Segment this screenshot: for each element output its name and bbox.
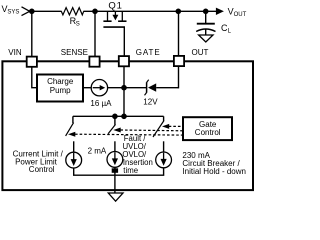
svg-text:Pump: Pump <box>50 86 71 95</box>
svg-text:Control: Control <box>195 128 221 137</box>
capacitor CL <box>196 24 215 35</box>
svg-text:VIN: VIN <box>8 48 22 57</box>
transistor Q1 (N-FET, simplified) <box>103 11 126 56</box>
node dot SENSE junction <box>92 9 98 15</box>
node square gnd junction <box>112 168 118 173</box>
node dot gate/16uA/zener <box>121 85 127 91</box>
svg-text:SENSE: SENSE <box>61 48 88 57</box>
svg-text:time: time <box>123 166 138 175</box>
wire gate net vertical <box>123 66 125 116</box>
label VOUT <box>228 7 247 19</box>
switch S1 (left) <box>66 116 74 152</box>
switch S2 (middle) <box>108 116 115 151</box>
node dot CL junction <box>203 9 209 15</box>
switch S3 (right) <box>153 116 164 152</box>
label Fault / UVLO / OVLO / Insertion time <box>122 134 152 175</box>
label Current Limit / Power Limit Control <box>13 149 64 174</box>
ground at CL (open triangle) <box>199 35 213 42</box>
svg-text:12V: 12V <box>143 97 158 106</box>
svg-text:OUT: OUT <box>234 12 247 18</box>
svg-text:OUT: OUT <box>192 48 209 57</box>
input arrow (open) at VSYS <box>22 7 30 16</box>
wire current source to gate net <box>108 87 124 89</box>
IC block outline <box>2 61 253 190</box>
svg-text:S: S <box>76 22 80 28</box>
current source I3 (230 mA) <box>156 152 172 168</box>
output arrow VOUT (filled) <box>216 8 224 15</box>
dashed control line to S1 <box>75 133 183 136</box>
pin VIN <box>27 57 37 67</box>
svg-text:Initial Hold - down: Initial Hold - down <box>182 167 246 176</box>
label Gate Control <box>195 120 221 137</box>
resistor RS <box>61 8 83 15</box>
label RS <box>70 16 80 27</box>
pin SENSE <box>89 57 99 67</box>
current source I2 (2 mA) <box>107 152 123 168</box>
dashed control line to S2 <box>120 129 183 132</box>
arrow on S1 control line <box>68 132 75 137</box>
svg-text:Control: Control <box>29 165 55 174</box>
pin OUT <box>174 56 184 66</box>
wire OUT drop <box>178 11 180 56</box>
label CL <box>221 23 232 35</box>
pin GATE <box>119 56 129 66</box>
Q1 body arrow head <box>112 15 118 21</box>
svg-text:GATE: GATE <box>136 48 161 57</box>
svg-text:16 µA: 16 µA <box>90 99 112 108</box>
label VSYS <box>2 4 20 15</box>
wire OUT net vertical <box>178 66 180 89</box>
wire zener cathode side <box>124 87 147 89</box>
current source I1 (current limit) <box>66 152 82 168</box>
svg-text:L: L <box>228 29 232 35</box>
wire CL drop <box>205 11 207 23</box>
charge pump box U-CP <box>37 75 83 102</box>
dashed control line to S3 <box>169 125 183 127</box>
arrow on S2 control line <box>113 128 120 133</box>
zener diode 12V <box>145 80 157 96</box>
wire middle source to ground <box>114 167 116 193</box>
wire SENSE drop <box>94 11 96 57</box>
wire charge pump to current source <box>83 87 91 89</box>
node dot rail/middle-switch <box>112 114 118 120</box>
node dot OUT junction <box>176 9 182 15</box>
wire VIN drop <box>31 11 33 57</box>
wire zener anode to OUT net <box>156 87 178 89</box>
current source 16uA <box>91 80 107 96</box>
svg-text:SYS: SYS <box>7 9 19 15</box>
svg-text:Charge: Charge <box>47 77 74 86</box>
wire bottom rail <box>74 168 164 175</box>
svg-text:2 mA: 2 mA <box>88 146 107 155</box>
label Charge Pump <box>47 77 74 95</box>
wire pulldown rail <box>73 115 164 117</box>
arrow on S3 control line <box>162 124 169 129</box>
node dot VSYS/VIN junction <box>29 9 35 15</box>
ground symbol (IC) <box>108 193 123 201</box>
label 230 mA Circuit Breaker / Initial Hold-down <box>182 151 246 176</box>
wire VIN pin to charge pump <box>32 66 37 87</box>
node dot rail/gate-net <box>121 114 127 120</box>
gate control box <box>183 117 232 140</box>
wire top rail VSYS to VOUT <box>30 10 62 12</box>
svg-text:Q1: Q1 <box>108 0 122 11</box>
